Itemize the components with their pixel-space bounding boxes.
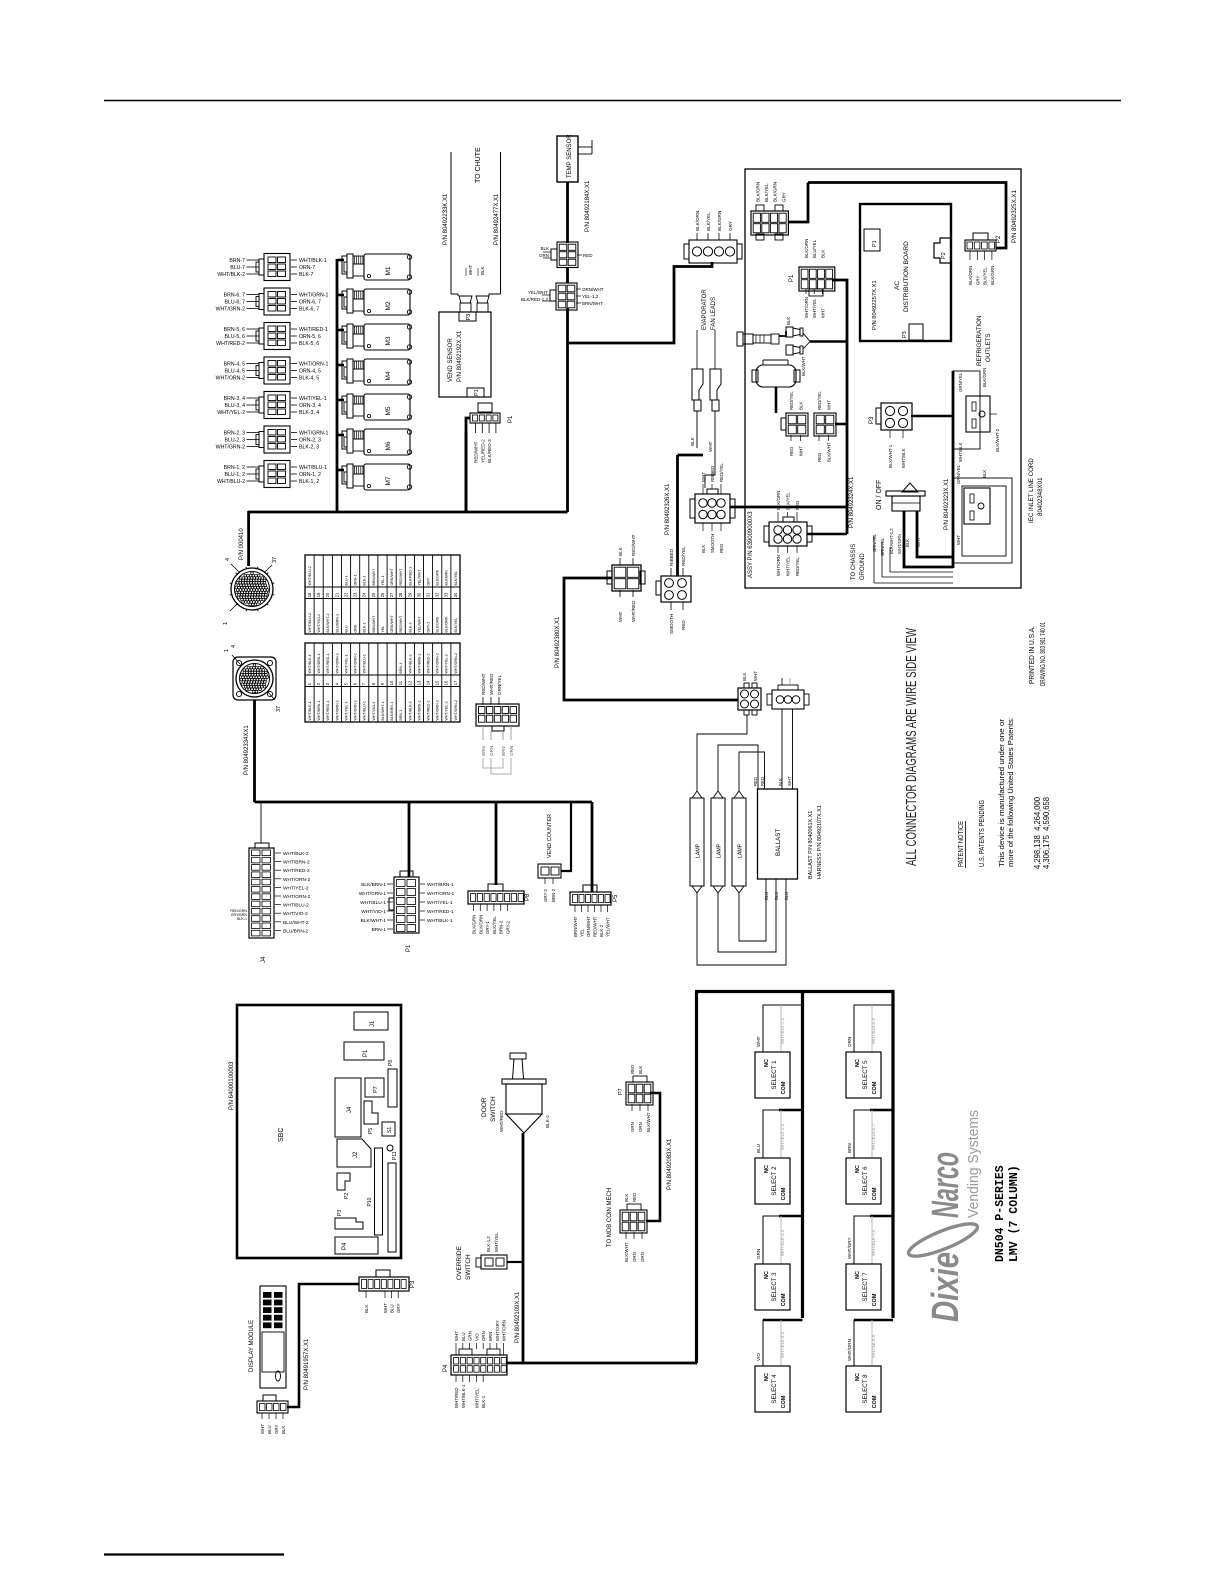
svg-text:WHT: WHT bbox=[799, 446, 804, 456]
svg-text:BLU-3, 4: BLU-3, 4 bbox=[225, 403, 246, 409]
svg-text:M2: M2 bbox=[385, 301, 392, 310]
svg-text:BLK: BLK bbox=[540, 246, 549, 251]
svg-text:WHT/BLU-1: WHT/BLU-1 bbox=[299, 465, 327, 471]
svg-text:GRY: GRY bbox=[396, 1303, 401, 1313]
svg-text:WHT/ORN-1: WHT/ORN-1 bbox=[299, 362, 329, 368]
svg-text:BLK/YEL: BLK/YEL bbox=[786, 492, 791, 510]
svg-text:WHT: WHT bbox=[753, 671, 758, 681]
svg-text:J4: J4 bbox=[347, 1106, 353, 1113]
svg-text:ORN: ORN bbox=[509, 746, 514, 756]
svg-text:P1: P1 bbox=[474, 389, 480, 396]
svg-text:BLK-1: BLK-1 bbox=[237, 917, 247, 921]
svg-text:BLK/WHT-2: BLK/WHT-2 bbox=[326, 614, 330, 633]
svg-text:WHT/BLK-2: WHT/BLK-2 bbox=[408, 701, 412, 720]
svg-text:RED/YEL: RED/YEL bbox=[795, 557, 800, 576]
svg-text:WHT/BRN-1: WHT/BRN-1 bbox=[317, 701, 321, 721]
svg-text:AC: AC bbox=[894, 281, 901, 290]
svg-text:P/N 80492083X.X1: P/N 80492083X.X1 bbox=[667, 1138, 673, 1190]
svg-text:WHT/BLK-4,5: WHT/BLK-4,5 bbox=[780, 1331, 785, 1358]
svg-text:ORN-2, 3: ORN-2, 3 bbox=[299, 438, 321, 444]
svg-text:WHT/ORN-1: WHT/ORN-1 bbox=[427, 891, 455, 897]
svg-text:P2: P2 bbox=[941, 252, 947, 259]
svg-text:P/N 80492325X.X1: P/N 80492325X.X1 bbox=[1011, 189, 1018, 243]
svg-text:COM: COM bbox=[781, 1187, 787, 1200]
svg-text:80402348X01: 80402348X01 bbox=[1037, 477, 1044, 516]
svg-text:34: 34 bbox=[453, 592, 458, 597]
svg-text:4,306,175 4,590,658: 4,306,175 4,590,658 bbox=[1042, 796, 1051, 869]
svg-text:P3: P3 bbox=[466, 314, 472, 321]
svg-text:GRN/YEL: GRN/YEL bbox=[958, 372, 963, 392]
svg-text:YEL: YEL bbox=[580, 928, 585, 937]
svg-text:20: 20 bbox=[325, 592, 330, 597]
svg-text:P4: P4 bbox=[443, 1364, 449, 1372]
svg-text:P1: P1 bbox=[508, 415, 514, 423]
svg-text:WHT/BLK-7,8: WHT/BLK-7,8 bbox=[871, 1229, 876, 1256]
svg-text:BLK/BRN-1: BLK/BRN-1 bbox=[390, 702, 394, 721]
svg-text:BRN-2, 3: BRN-2, 3 bbox=[224, 431, 245, 437]
svg-text:P10: P10 bbox=[367, 1197, 373, 1206]
svg-text:BLU/YEL: BLU/YEL bbox=[812, 239, 817, 258]
svg-text:WHT/BLK: WHT/BLK bbox=[901, 448, 906, 468]
svg-text:18: 18 bbox=[307, 592, 312, 597]
svg-text:P1: P1 bbox=[363, 1049, 369, 1057]
svg-text:WHT/RED-2: WHT/RED-2 bbox=[427, 701, 431, 721]
svg-text:ON / OFF: ON / OFF bbox=[876, 480, 883, 510]
svg-text:GRN/YEL: GRN/YEL bbox=[880, 537, 885, 556]
svg-text:P3: P3 bbox=[902, 331, 908, 338]
svg-text:WHT/YEL: WHT/YEL bbox=[786, 556, 791, 576]
svg-text:33: 33 bbox=[444, 592, 449, 597]
svg-text:M7: M7 bbox=[385, 476, 392, 485]
svg-text:ORN/WHT: ORN/WHT bbox=[390, 615, 394, 633]
svg-text:BLK: BLK bbox=[786, 317, 791, 325]
svg-text:WHT: WHT bbox=[618, 611, 623, 622]
svg-text:BRN/WHT: BRN/WHT bbox=[372, 615, 376, 633]
svg-text:BLK: BLK bbox=[364, 1305, 369, 1313]
svg-text:FAN LEADS: FAN LEADS bbox=[711, 297, 717, 330]
svg-text:WHT/ORN-2: WHT/ORN-2 bbox=[283, 877, 311, 883]
svg-text:ORN: ORN bbox=[638, 1122, 643, 1132]
svg-text:WHT/BRN-2: WHT/BRN-2 bbox=[417, 654, 421, 674]
svg-text:WHT/BLK-1,2: WHT/BLK-1,2 bbox=[780, 1017, 785, 1044]
svg-text:WHT/GRN-1: WHT/GRN-1 bbox=[299, 431, 329, 437]
svg-text:COM: COM bbox=[781, 1081, 787, 1094]
svg-text:PRINTED IN U.S.A.: PRINTED IN U.S.A. bbox=[1027, 626, 1036, 684]
svg-text:DN504 P-SERIES: DN504 P-SERIES bbox=[994, 1165, 1007, 1262]
svg-text:BLK: BLK bbox=[618, 546, 623, 556]
svg-text:29: 29 bbox=[407, 592, 412, 597]
svg-text:ORN-5, 6: ORN-5, 6 bbox=[299, 334, 321, 340]
svg-text:BLK/BRN: BLK/BRN bbox=[445, 570, 449, 586]
svg-text:RED: RED bbox=[795, 501, 800, 510]
svg-text:RED/WHT: RED/WHT bbox=[631, 534, 636, 556]
svg-text:BLK/GRN: BLK/GRN bbox=[472, 915, 477, 934]
svg-text:RED: RED bbox=[760, 777, 765, 786]
svg-text:GRY-1: GRY-1 bbox=[485, 921, 490, 934]
svg-text:RED: RED bbox=[753, 777, 758, 786]
svg-text:BLK/WHT: BLK/WHT bbox=[827, 442, 832, 462]
svg-text:BLK/YEL: BLK/YEL bbox=[706, 212, 711, 231]
svg-text:GRY: GRY bbox=[781, 192, 786, 202]
svg-text:WHT/ORN: WHT/ORN bbox=[776, 555, 781, 576]
svg-text:BLU: BLU bbox=[784, 892, 789, 900]
svg-text:SELECT 4: SELECT 4 bbox=[771, 1374, 778, 1404]
svg-text:SWITCH: SWITCH bbox=[490, 1096, 497, 1122]
svg-text:BLU-4, 5: BLU-4, 5 bbox=[225, 369, 246, 375]
svg-text:YEL/WHT: YEL/WHT bbox=[528, 290, 548, 295]
svg-text:ORN-1, 2: ORN-1, 2 bbox=[299, 472, 321, 478]
svg-text:BLU-1, 2: BLU-1, 2 bbox=[225, 472, 246, 478]
svg-text:WHT/BLU-1: WHT/BLU-1 bbox=[363, 701, 367, 720]
svg-text:WHT/BLK-1: WHT/BLK-1 bbox=[427, 918, 453, 924]
svg-text:BRN: BRN bbox=[488, 1332, 493, 1341]
svg-text:WHT/BLK-2: WHT/BLK-2 bbox=[217, 272, 245, 278]
svg-text:17: 17 bbox=[453, 680, 458, 685]
svg-text:TEMP SENSOR: TEMP SENSOR bbox=[567, 134, 573, 178]
svg-text:25: 25 bbox=[371, 592, 376, 597]
svg-text:WHT/BLK-5,6: WHT/BLK-5,6 bbox=[871, 1017, 876, 1044]
svg-text:WHT/RED: WHT/RED bbox=[454, 1388, 459, 1409]
svg-text:BLU: BLU bbox=[344, 625, 348, 632]
svg-text:DISPLAY MODULE: DISPLAY MODULE bbox=[249, 1320, 255, 1372]
svg-text:GRN/YEL: GRN/YEL bbox=[872, 533, 877, 552]
svg-text:WHT/BLK-6,7: WHT/BLK-6,7 bbox=[871, 1123, 876, 1150]
svg-text:BLK/WHT-1: BLK/WHT-1 bbox=[888, 444, 893, 468]
svg-text:DOOR: DOOR bbox=[481, 1097, 488, 1117]
svg-text:BLK-5, 6: BLK-5, 6 bbox=[299, 341, 319, 347]
svg-text:NC: NC bbox=[764, 1059, 770, 1067]
svg-text:WHT/ORN-1: WHT/ORN-1 bbox=[335, 700, 339, 720]
svg-text:BRN-5, 6: BRN-5, 6 bbox=[224, 327, 245, 333]
svg-text:WHT/BLK-1: WHT/BLK-1 bbox=[299, 258, 327, 264]
svg-text:WHT: WHT bbox=[701, 472, 706, 482]
svg-text:BLK: BLK bbox=[624, 1194, 629, 1202]
svg-text:1: 1 bbox=[223, 622, 229, 625]
svg-text:COM: COM bbox=[872, 1293, 878, 1306]
svg-text:GRN: GRN bbox=[756, 1249, 761, 1259]
svg-text:WHT/ORN: WHT/ORN bbox=[847, 1339, 852, 1361]
svg-text:BLK: BLK bbox=[638, 1066, 643, 1074]
svg-text:RED/WHT: RED/WHT bbox=[481, 673, 486, 695]
svg-text:BLK: BLK bbox=[742, 673, 747, 681]
svg-text:ORN: ORN bbox=[481, 1331, 486, 1341]
svg-text:P8: P8 bbox=[388, 1060, 394, 1066]
svg-text:P3: P3 bbox=[410, 1280, 416, 1288]
svg-text:WHT/RED-1: WHT/RED-1 bbox=[427, 909, 454, 915]
svg-text:4: 4 bbox=[231, 645, 237, 648]
svg-text:ALL CONNECTOR DIAGRAMS ARE WIR: ALL CONNECTOR DIAGRAMS ARE WIRE SIDE VIE… bbox=[904, 628, 920, 866]
svg-text:21: 21 bbox=[334, 592, 339, 597]
svg-text:YEL/WHT: YEL/WHT bbox=[417, 616, 421, 633]
svg-text:GRY: GRY bbox=[728, 221, 733, 231]
svg-text:BLU: BLU bbox=[774, 892, 779, 900]
svg-text:26: 26 bbox=[380, 592, 385, 597]
svg-text:RED: RED bbox=[583, 253, 593, 258]
svg-text:37: 37 bbox=[272, 557, 278, 563]
svg-text:10: 10 bbox=[389, 680, 394, 685]
svg-text:WHT/RED-1: WHT/RED-1 bbox=[326, 701, 330, 721]
svg-text:BLK-1, 2: BLK-1, 2 bbox=[299, 479, 319, 485]
svg-text:WHT/GRN-2: WHT/GRN-2 bbox=[216, 445, 246, 451]
svg-text:WHT/GRN-1: WHT/GRN-1 bbox=[354, 653, 358, 673]
svg-text:BLK: BLK bbox=[778, 778, 783, 786]
svg-text:WHT/BLK-2,3: WHT/BLK-2,3 bbox=[780, 1123, 785, 1150]
svg-text:WHT/ORN: WHT/ORN bbox=[804, 297, 809, 318]
svg-text:GRY-2: GRY-2 bbox=[543, 889, 548, 902]
svg-text:P2: P2 bbox=[996, 235, 1002, 243]
svg-text:RED/WHT: RED/WHT bbox=[474, 441, 479, 463]
svg-text:OVERRIDE: OVERRIDE bbox=[456, 1245, 463, 1280]
svg-text:J1: J1 bbox=[370, 1020, 376, 1027]
svg-text:GRN: GRN bbox=[640, 1252, 645, 1262]
svg-text:WHT/ORN-1: WHT/ORN-1 bbox=[335, 653, 339, 673]
svg-text:WHT/BRN-2: WHT/BRN-2 bbox=[283, 860, 310, 866]
svg-text:WHT: WHT bbox=[383, 1303, 388, 1313]
svg-text:WHT/GRN-2: WHT/GRN-2 bbox=[216, 307, 246, 313]
svg-text:VIO: VIO bbox=[474, 1333, 479, 1341]
svg-text:BLU/WHT-2: BLU/WHT-2 bbox=[283, 920, 309, 926]
svg-text:11: 11 bbox=[398, 680, 403, 685]
svg-text:BRN/WHT: BRN/WHT bbox=[372, 568, 376, 586]
svg-text:NC: NC bbox=[764, 1373, 770, 1381]
svg-text:P/N 80492184X.X1: P/N 80492184X.X1 bbox=[585, 180, 591, 232]
svg-text:RED: RED bbox=[681, 620, 686, 630]
svg-text:BLK: BLK bbox=[799, 402, 804, 410]
svg-text:WHT/GRN-2: WHT/GRN-2 bbox=[454, 700, 458, 720]
svg-text:GRN: GRN bbox=[468, 1331, 473, 1341]
svg-text:GRY-1: GRY-1 bbox=[427, 622, 431, 633]
svg-text:WHT/YEL: WHT/YEL bbox=[494, 1232, 499, 1252]
svg-text:U.S. PATENTS PENDING: U.S. PATENTS PENDING bbox=[977, 800, 986, 867]
svg-text:P/N 80492380X.X1: P/N 80492380X.X1 bbox=[555, 616, 561, 668]
svg-text:BRN-1: BRN-1 bbox=[399, 663, 403, 674]
svg-text:32: 32 bbox=[435, 592, 440, 597]
svg-text:BLU-5, 6: BLU-5, 6 bbox=[225, 334, 246, 340]
svg-text:BLK-2: BLK-2 bbox=[408, 623, 412, 633]
svg-text:BLK: BLK bbox=[690, 436, 695, 446]
svg-text:NC: NC bbox=[855, 1059, 861, 1067]
svg-text:12: 12 bbox=[407, 680, 412, 685]
svg-text:BLK/WHT-1: BLK/WHT-1 bbox=[381, 702, 385, 721]
svg-text:WHT/VIO-1: WHT/VIO-1 bbox=[361, 909, 386, 915]
svg-text:WHT/YEL-2: WHT/YEL-2 bbox=[445, 701, 449, 720]
svg-text:YEL-1,2: YEL-1,2 bbox=[582, 294, 599, 299]
svg-text:J2: J2 bbox=[353, 1151, 359, 1158]
svg-text:24: 24 bbox=[362, 592, 367, 597]
svg-text:WHT/VIO-2: WHT/VIO-2 bbox=[283, 911, 308, 917]
svg-text:COM: COM bbox=[781, 1293, 787, 1306]
svg-text:Narco: Narco bbox=[925, 1152, 967, 1218]
svg-text:DRAWING NO. 803 901 740 01: DRAWING NO. 803 901 740 01 bbox=[1038, 622, 1047, 686]
svg-text:RED/YEL: RED/YEL bbox=[817, 391, 822, 410]
svg-text:BLK-1,2: BLK-1,2 bbox=[486, 1236, 491, 1252]
svg-text:ORN: ORN bbox=[632, 1252, 637, 1262]
svg-text:WHT: WHT bbox=[956, 535, 961, 545]
svg-text:BLK/YEL: BLK/YEL bbox=[454, 618, 458, 633]
svg-text:WHT: WHT bbox=[820, 308, 825, 318]
svg-text:NC: NC bbox=[855, 1271, 861, 1279]
svg-text:GRN: GRN bbox=[539, 253, 549, 258]
svg-text:WHT/BLU-1: WHT/BLU-1 bbox=[363, 654, 367, 673]
svg-text:WHT/RED-2: WHT/RED-2 bbox=[427, 654, 431, 674]
svg-text:WHT/ORN: WHT/ORN bbox=[502, 1320, 507, 1341]
svg-text:WHT/BLK-1: WHT/BLK-1 bbox=[461, 1384, 466, 1408]
svg-text:WHT/BLU-2: WHT/BLU-2 bbox=[308, 566, 312, 585]
svg-text:GROUND: GROUND bbox=[860, 553, 866, 580]
svg-text:RIBBED: RIBBED bbox=[710, 466, 715, 482]
svg-text:SELECT 5: SELECT 5 bbox=[862, 1060, 869, 1090]
svg-text:WHT/BLK-2: WHT/BLK-2 bbox=[408, 654, 412, 673]
svg-text:SWITCH: SWITCH bbox=[465, 1254, 472, 1280]
svg-text:COM: COM bbox=[781, 1395, 787, 1408]
svg-text:WHT/ORN-2: WHT/ORN-2 bbox=[436, 653, 440, 673]
svg-text:BLU/BRN-2: BLU/BRN-2 bbox=[335, 614, 339, 633]
svg-text:31: 31 bbox=[426, 592, 431, 597]
svg-text:4,298,138 4,264,000: 4,298,138 4,264,000 bbox=[1033, 796, 1042, 869]
svg-text:BRN-1: BRN-1 bbox=[372, 927, 387, 933]
svg-text:BLK: BLK bbox=[982, 470, 987, 478]
svg-text:BLU-2, 3: BLU-2, 3 bbox=[225, 438, 246, 444]
svg-text:RED: RED bbox=[817, 453, 822, 462]
svg-text:WHT/YEL: WHT/YEL bbox=[474, 1388, 479, 1408]
svg-text:RED/WHT: RED/WHT bbox=[399, 568, 403, 586]
svg-text:WHT/RED: WHT/RED bbox=[499, 1110, 504, 1132]
svg-text:M4: M4 bbox=[385, 371, 392, 380]
svg-text:WHT/RED: WHT/RED bbox=[631, 600, 636, 622]
svg-text:WHT/GRN-1: WHT/GRN-1 bbox=[354, 700, 358, 720]
svg-text:BLU: BLU bbox=[756, 1144, 761, 1153]
svg-text:WHT: WHT bbox=[756, 1036, 761, 1047]
svg-text:GRN/YEL: GRN/YEL bbox=[497, 674, 502, 695]
svg-text:HARNESS P/N 80492107X.X1: HARNESS P/N 80492107X.X1 bbox=[817, 805, 823, 879]
svg-text:BLU-1: BLU-1 bbox=[344, 575, 348, 585]
svg-text:WHT/RED-1: WHT/RED-1 bbox=[326, 654, 330, 674]
svg-text:15: 15 bbox=[435, 680, 440, 685]
svg-text:P/N 80492324X.X1: P/N 80492324X.X1 bbox=[849, 476, 855, 528]
svg-text:LAMP: LAMP bbox=[696, 843, 702, 858]
svg-text:WHT/ORN-2: WHT/ORN-2 bbox=[216, 376, 246, 382]
svg-text:OUTLETS: OUTLETS bbox=[985, 333, 992, 362]
svg-text:SELECT 1: SELECT 1 bbox=[771, 1060, 778, 1090]
svg-text:BRN-4, 5: BRN-4, 5 bbox=[224, 362, 245, 368]
svg-text:M3: M3 bbox=[385, 336, 392, 345]
svg-text:YEL: YEL bbox=[381, 626, 385, 633]
svg-text:P/N 80492109X.X1: P/N 80492109X.X1 bbox=[515, 1291, 521, 1343]
svg-text:BLU-7: BLU-7 bbox=[230, 265, 245, 271]
svg-text:P1: P1 bbox=[406, 944, 412, 952]
svg-text:WHT/BRN-2: WHT/BRN-2 bbox=[417, 701, 421, 721]
svg-text:WHT/BLK-1: WHT/BLK-1 bbox=[308, 701, 312, 720]
svg-text:ORN-3, 4: ORN-3, 4 bbox=[299, 403, 321, 409]
svg-text:SELECT 3: SELECT 3 bbox=[771, 1272, 778, 1302]
svg-text:BLK/GRN: BLK/GRN bbox=[436, 616, 440, 632]
svg-text:YEL/RED-2: YEL/RED-2 bbox=[480, 439, 485, 463]
svg-text:WHT/YEL-1: WHT/YEL-1 bbox=[299, 396, 327, 402]
svg-text:BLK/RED-3: BLK/RED-3 bbox=[487, 439, 492, 463]
svg-text:ORN: ORN bbox=[354, 624, 358, 632]
svg-text:BLK/WHT: BLK/WHT bbox=[801, 356, 806, 376]
svg-text:BLK: BLK bbox=[701, 545, 706, 553]
svg-text:RED: RED bbox=[630, 1065, 635, 1074]
svg-text:NC: NC bbox=[855, 1373, 861, 1381]
svg-text:P/N 80492326X.X1: P/N 80492326X.X1 bbox=[665, 483, 671, 535]
svg-text:COM: COM bbox=[872, 1395, 878, 1408]
svg-text:WHT: WHT bbox=[260, 1424, 265, 1434]
svg-text:BLK/RED-1: BLK/RED-1 bbox=[408, 567, 412, 586]
svg-text:WHT/BLK: WHT/BLK bbox=[958, 442, 963, 462]
svg-text:BLU-6, 7: BLU-6, 7 bbox=[225, 300, 246, 306]
svg-text:BLK/WHT-1: BLK/WHT-1 bbox=[361, 918, 387, 924]
svg-text:YEL/WHT: YEL/WHT bbox=[417, 569, 421, 586]
svg-text:BRN/WHT: BRN/WHT bbox=[573, 916, 578, 937]
svg-text:P/N 000410: P/N 000410 bbox=[239, 528, 245, 560]
svg-text:P1: P1 bbox=[789, 274, 795, 282]
svg-text:GRY: GRY bbox=[274, 1424, 279, 1434]
svg-text:BRN-6, 7: BRN-6, 7 bbox=[224, 293, 245, 299]
svg-text:WHT/RED-1: WHT/RED-1 bbox=[299, 327, 328, 333]
svg-text:BLK-4, 5: BLK-4, 5 bbox=[299, 376, 319, 382]
svg-text:P/N 64000100003: P/N 64000100003 bbox=[229, 1061, 235, 1110]
svg-text:WHT/VIO-1: WHT/VIO-1 bbox=[372, 702, 376, 721]
svg-text:WHT/BLK-3,4: WHT/BLK-3,4 bbox=[780, 1229, 785, 1256]
svg-text:ORN/WHT: ORN/WHT bbox=[390, 568, 394, 586]
svg-text:J4: J4 bbox=[261, 956, 267, 963]
svg-text:4: 4 bbox=[225, 558, 231, 561]
svg-text:WHT/YEL-2: WHT/YEL-2 bbox=[217, 410, 245, 416]
svg-text:ASSY P/N 639009000X3: ASSY P/N 639009000X3 bbox=[748, 511, 754, 578]
svg-text:P5: P5 bbox=[368, 1128, 374, 1134]
svg-text:WHT/BLU-2: WHT/BLU-2 bbox=[283, 903, 309, 909]
svg-text:16: 16 bbox=[444, 680, 449, 685]
svg-text:COM: COM bbox=[872, 1187, 878, 1200]
svg-text:BLK-2, 3: BLK-2, 3 bbox=[299, 445, 319, 451]
svg-text:27: 27 bbox=[389, 592, 394, 597]
svg-text:SELECT 7: SELECT 7 bbox=[862, 1272, 869, 1302]
svg-text:1: 1 bbox=[224, 649, 230, 652]
svg-text:DISTRIBUTION BOARD: DISTRIBUTION BOARD bbox=[903, 241, 910, 312]
svg-text:WHT/YEL-1: WHT/YEL-1 bbox=[344, 701, 348, 720]
svg-text:BRN-2: BRN-2 bbox=[551, 888, 556, 902]
svg-text:TO MDB COIN MECH: TO MDB COIN MECH bbox=[607, 1188, 613, 1247]
svg-text:P11: P11 bbox=[392, 1151, 398, 1160]
svg-text:PATENT NOTICE: PATENT NOTICE bbox=[956, 821, 965, 867]
svg-text:RIBBED: RIBBED bbox=[669, 548, 674, 566]
svg-text:BLK: BLK bbox=[281, 1426, 286, 1434]
svg-text:GRN/YEL: GRN/YEL bbox=[956, 464, 961, 484]
svg-text:BALLAST: BALLAST bbox=[775, 829, 782, 856]
svg-text:WHT/YEL: WHT/YEL bbox=[812, 298, 817, 318]
svg-text:WHT: WHT bbox=[916, 537, 921, 547]
svg-text:P5: P5 bbox=[613, 894, 619, 902]
svg-text:M6: M6 bbox=[385, 441, 392, 450]
svg-text:BRN-1: BRN-1 bbox=[399, 710, 403, 721]
svg-text:WHT/RED-2: WHT/RED-2 bbox=[283, 868, 310, 874]
svg-text:REFRIGERATION: REFRIGERATION bbox=[976, 316, 983, 366]
svg-text:ORN-4, 5: ORN-4, 5 bbox=[299, 369, 321, 375]
svg-text:RED/WHT: RED/WHT bbox=[399, 615, 403, 633]
svg-text:LMV (7 COLUMN): LMV (7 COLUMN) bbox=[1008, 1165, 1021, 1262]
svg-text:RED: RED bbox=[632, 1193, 637, 1202]
svg-text:BRN-2: BRN-2 bbox=[499, 920, 504, 934]
svg-text:WHT/BLU-2: WHT/BLU-2 bbox=[308, 613, 312, 632]
svg-text:BLK/WHT: BLK/WHT bbox=[646, 1112, 651, 1132]
svg-text:WHT/GRN-2: WHT/GRN-2 bbox=[454, 653, 458, 673]
svg-text:RED: RED bbox=[719, 544, 724, 553]
svg-text:BLK/WHT-1,2: BLK/WHT-1,2 bbox=[889, 528, 894, 554]
svg-text:WHT/BRN-1: WHT/BRN-1 bbox=[427, 882, 454, 888]
svg-text:BLK: BLK bbox=[905, 539, 910, 547]
svg-text:WHT: WHT bbox=[454, 1331, 459, 1341]
